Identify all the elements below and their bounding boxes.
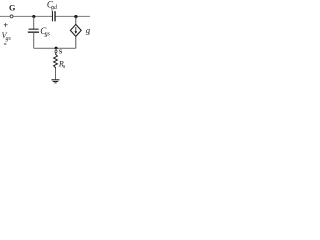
svg-text:gs: gs <box>45 32 51 38</box>
svg-text:s: s <box>63 64 66 70</box>
svg-text:gd: gd <box>51 5 58 11</box>
svg-text:+: + <box>3 20 8 30</box>
svg-text:S: S <box>59 48 63 55</box>
svg-text:m: m <box>89 30 90 36</box>
svg-text:G: G <box>9 4 16 13</box>
svg-text:gs: gs <box>6 36 12 42</box>
